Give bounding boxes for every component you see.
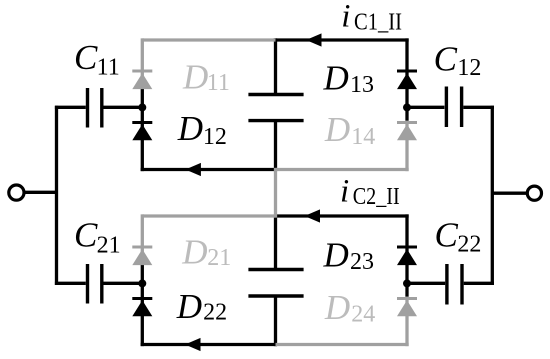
svg-text:D: D	[323, 59, 349, 98]
svg-text:22: 22	[457, 232, 481, 258]
svg-text:24: 24	[351, 301, 375, 327]
svg-text:21: 21	[207, 245, 231, 271]
svg-text:D: D	[176, 287, 202, 326]
svg-text:C1_II: C1_II	[354, 10, 402, 36]
svg-text:12: 12	[457, 55, 481, 81]
svg-text:21: 21	[97, 232, 121, 258]
svg-text:D: D	[177, 109, 203, 148]
svg-text:D: D	[182, 57, 208, 96]
svg-text:D: D	[323, 236, 349, 275]
svg-text:11: 11	[207, 70, 230, 96]
svg-text:C: C	[74, 216, 98, 255]
svg-text:C: C	[434, 39, 458, 78]
svg-text:D: D	[324, 288, 350, 327]
svg-text:23: 23	[350, 249, 374, 275]
svg-text:13: 13	[350, 72, 374, 98]
svg-text:C2_II: C2_II	[353, 184, 400, 210]
svg-text:i: i	[341, 0, 350, 34]
svg-text:i: i	[340, 174, 349, 210]
svg-text:D: D	[324, 110, 350, 149]
svg-text:22: 22	[203, 299, 227, 325]
svg-text:D: D	[181, 233, 207, 272]
svg-text:14: 14	[351, 124, 375, 150]
svg-text:11: 11	[97, 55, 120, 81]
svg-text:C: C	[435, 216, 459, 255]
svg-text:12: 12	[203, 124, 227, 150]
svg-text:C: C	[74, 38, 98, 77]
